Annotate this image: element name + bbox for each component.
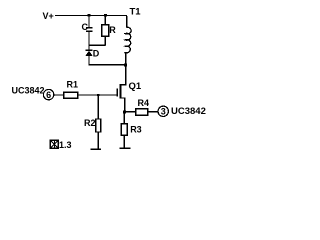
ground R3 xyxy=(119,147,130,149)
svg-text:R3: R3 xyxy=(130,125,142,135)
wire diode to bottom rail xyxy=(88,56,89,66)
transistor Q1 xyxy=(116,81,141,112)
junction cap branch xyxy=(88,14,91,17)
wire top rail xyxy=(55,15,127,16)
wire pin6 to R1 xyxy=(54,94,64,95)
svg-text:D: D xyxy=(93,49,100,59)
resistor R2 xyxy=(84,95,101,149)
wire cap to diode xyxy=(88,32,89,50)
svg-text:6: 6 xyxy=(46,90,51,100)
junction gate node xyxy=(97,94,99,96)
wire drain lead xyxy=(121,84,127,85)
wire R4 to pin3 xyxy=(148,111,159,112)
diode D xyxy=(85,49,100,59)
wire R1 to gate xyxy=(78,94,117,95)
svg-text:R: R xyxy=(109,25,116,35)
junction source node xyxy=(123,111,126,114)
junction R branch xyxy=(104,14,107,17)
svg-text:Q1: Q1 xyxy=(129,81,142,92)
resistor R4 xyxy=(136,98,149,115)
IC UC3842 pin 3 xyxy=(158,106,206,117)
wire snubber bottom rail xyxy=(88,64,126,65)
svg-text:3: 3 xyxy=(161,107,166,117)
ground R2 xyxy=(91,149,101,151)
svg-text:V+: V+ xyxy=(43,11,54,21)
wire drain vertical xyxy=(125,65,126,85)
wire source to R4 xyxy=(125,111,136,112)
svg-text:R1: R1 xyxy=(67,80,79,90)
svg-text:UC3842: UC3842 xyxy=(12,86,45,96)
node V+ xyxy=(43,11,54,21)
resistor R1 xyxy=(64,80,78,99)
caption figure 1.3 xyxy=(50,140,71,150)
junction drain node xyxy=(124,64,127,67)
svg-text:C: C xyxy=(82,22,89,32)
svg-text:UC3842: UC3842 xyxy=(171,106,206,117)
IC UC3842 pin 6 xyxy=(12,86,54,101)
capacitor C xyxy=(82,22,93,32)
resistor R xyxy=(102,16,117,46)
wire R join C xyxy=(88,44,105,45)
resistor R3 xyxy=(121,112,142,148)
svg-text:T1: T1 xyxy=(130,7,142,18)
transformer T1 primary xyxy=(124,7,141,64)
svg-text:R4: R4 xyxy=(138,98,150,108)
wire cap branch top xyxy=(88,16,89,27)
svg-text:R2: R2 xyxy=(84,118,96,128)
svg-text:1.3: 1.3 xyxy=(59,140,72,150)
